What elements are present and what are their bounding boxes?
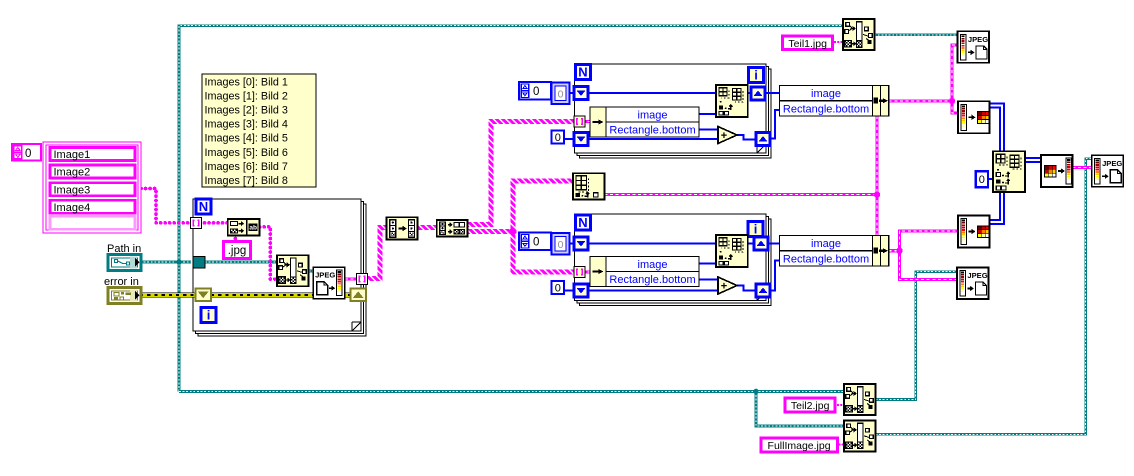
svg-text:+: + bbox=[721, 281, 727, 293]
svg-text:Teil2.jpg: Teil2.jpg bbox=[791, 400, 830, 412]
svg-text:Images [7]: Bild 8: Images [7]: Bild 8 bbox=[205, 175, 288, 187]
svg-text:+: + bbox=[721, 130, 727, 142]
svg-text:JPEG: JPEG bbox=[968, 35, 988, 44]
svg-text:.jpg: .jpg bbox=[228, 245, 247, 257]
svg-text:FullImage.jpg: FullImage.jpg bbox=[768, 440, 831, 452]
svg-text:image: image bbox=[638, 110, 668, 122]
svg-text:Images [5]: Bild 6: Images [5]: Bild 6 bbox=[205, 147, 288, 159]
svg-text:Image3: Image3 bbox=[54, 184, 91, 196]
svg-text:0: 0 bbox=[555, 283, 561, 295]
svg-text:0: 0 bbox=[533, 237, 539, 249]
svg-text:Images [0]: Bild 1: Images [0]: Bild 1 bbox=[205, 77, 288, 89]
svg-text:0: 0 bbox=[558, 239, 564, 251]
svg-text:Rectangle.bottom: Rectangle.bottom bbox=[609, 274, 695, 286]
svg-text:JPEG: JPEG bbox=[315, 271, 335, 280]
svg-text:0: 0 bbox=[979, 174, 985, 186]
svg-text:i: i bbox=[207, 308, 211, 323]
svg-text:Images [1]: Bild 2: Images [1]: Bild 2 bbox=[205, 91, 288, 103]
svg-text:Path in: Path in bbox=[107, 243, 141, 255]
svg-text:N: N bbox=[199, 199, 208, 214]
svg-text:image: image bbox=[811, 88, 841, 100]
svg-text:Teil1.jpg: Teil1.jpg bbox=[788, 38, 827, 50]
svg-text:Images [4]: Bild 5: Images [4]: Bild 5 bbox=[205, 133, 288, 145]
svg-text:i: i bbox=[754, 68, 758, 83]
svg-text:ab: ab bbox=[249, 224, 257, 231]
svg-text:Rectangle.bottom: Rectangle.bottom bbox=[783, 103, 869, 115]
svg-text:Image2: Image2 bbox=[54, 167, 91, 179]
svg-text:Images [3]: Bild 4: Images [3]: Bild 4 bbox=[205, 119, 288, 131]
svg-text:JPEG: JPEG bbox=[1102, 159, 1122, 168]
svg-text:Images [2]: Bild 3: Images [2]: Bild 3 bbox=[205, 105, 288, 117]
svg-text:N: N bbox=[578, 215, 587, 230]
svg-text:Rectangle.bottom: Rectangle.bottom bbox=[609, 125, 695, 137]
svg-text:Rectangle.bottom: Rectangle.bottom bbox=[783, 253, 869, 265]
svg-text:i: i bbox=[754, 222, 758, 237]
svg-text:Image4: Image4 bbox=[54, 202, 91, 214]
svg-text:Images [6]: Bild 7: Images [6]: Bild 7 bbox=[205, 161, 288, 173]
svg-text:0: 0 bbox=[555, 132, 561, 144]
svg-text:image: image bbox=[811, 238, 841, 250]
svg-text:0: 0 bbox=[25, 148, 31, 160]
svg-text:Image1: Image1 bbox=[54, 149, 91, 161]
svg-text:image: image bbox=[638, 259, 668, 271]
svg-text:0: 0 bbox=[533, 86, 539, 98]
svg-text:JPEG: JPEG bbox=[967, 271, 987, 280]
svg-text:N: N bbox=[578, 65, 587, 80]
svg-text:0: 0 bbox=[558, 89, 564, 101]
